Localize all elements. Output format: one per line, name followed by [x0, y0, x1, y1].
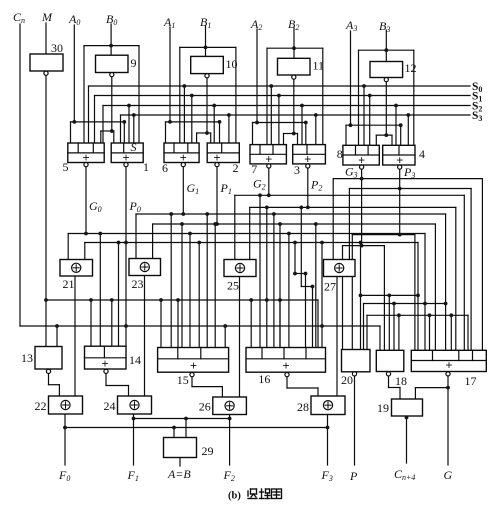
svg-text:26: 26	[199, 400, 211, 414]
bubble U10 output	[205, 74, 209, 78]
wire Mbar vertical	[45, 76, 47, 347]
net AB line a	[65, 427, 328, 429]
svg-text:24: 24	[104, 399, 116, 413]
junction Mbar-to-16a	[249, 298, 253, 302]
wire A1 input	[169, 27, 171, 122]
wire G1 to gate15	[170, 214, 172, 348]
svg-text:19: 19	[377, 401, 389, 415]
XOR gate 27	[324, 260, 356, 277]
junction redist c s2	[449, 313, 453, 317]
svg-text:14: 14	[129, 353, 141, 367]
input label Cn	[13, 10, 25, 25]
label P	[349, 469, 358, 483]
wire P3 extend	[399, 189, 401, 235]
AOI gate 4	[383, 145, 415, 167]
wire B2 input	[293, 28, 295, 58]
wire Bbar2 bridge	[284, 133, 298, 135]
AOI gate 6	[164, 143, 199, 165]
net G0 right drop	[424, 234, 426, 351]
label 20	[341, 373, 353, 387]
label S2	[472, 101, 482, 114]
svg-text:13: 13	[21, 351, 33, 365]
svg-text:16: 16	[258, 372, 270, 386]
net P1 left drop	[152, 224, 154, 260]
svg-text:A=B: A=B	[167, 467, 191, 481]
net G2 left drop	[234, 195, 236, 260]
wire P2b jog	[301, 286, 312, 288]
bubble U11 output	[292, 75, 296, 79]
label 6	[162, 161, 168, 175]
input label A0	[68, 12, 80, 27]
net G1 right drop	[445, 214, 447, 350]
junction Mbar line	[44, 298, 48, 302]
svg-text:25: 25	[227, 279, 239, 293]
label Cn+4	[394, 467, 415, 482]
svg-text:22: 22	[35, 399, 47, 413]
junction A1 bend	[218, 120, 222, 124]
label S0	[472, 81, 482, 94]
svg-text:B2: B2	[288, 17, 299, 32]
wire P0 jog	[295, 273, 306, 275]
wire A2 to gateG	[252, 123, 254, 145]
wire Bbar0 bridge	[101, 130, 114, 132]
net S3	[121, 114, 471, 116]
bubble gate 5	[84, 163, 88, 167]
junction P0-to-14	[117, 241, 121, 245]
inverter U30	[30, 54, 63, 71]
junction G1	[181, 212, 185, 216]
wire G1c to gate15	[206, 214, 208, 348]
wire Cn to 15	[224, 326, 226, 348]
wire P2	[307, 166, 309, 207]
junction F2 branch	[228, 417, 232, 421]
wire G3 loop to 20	[342, 246, 344, 350]
junction B3 tap	[384, 48, 388, 52]
svg-text:7: 7	[251, 162, 257, 176]
svg-text:G0: G0	[89, 199, 102, 214]
net G3 line	[333, 178, 482, 180]
label F0	[58, 468, 70, 483]
junction redist a to 18	[387, 294, 391, 298]
wire A2 to gateP	[305, 123, 307, 145]
wire P3 to gate17	[414, 235, 416, 351]
svg-text:1: 1	[143, 160, 149, 174]
svg-text:P2: P2	[310, 178, 322, 193]
wire B0 loop left	[83, 46, 85, 143]
wire redist b to 20	[363, 304, 365, 350]
svg-text:Cn+4: Cn+4	[394, 467, 415, 482]
junction S3 tap bit3	[406, 113, 410, 117]
wire S2 tap bit1	[213, 106, 215, 144]
svg-text:29: 29	[202, 444, 214, 458]
label G	[444, 468, 453, 482]
svg-text:G2: G2	[253, 177, 266, 192]
wire 15 out	[192, 377, 222, 397]
wire S2 tap bit2	[301, 106, 303, 145]
AOI gate 14	[85, 346, 127, 370]
svg-text:3: 3	[294, 163, 300, 177]
svg-text:Cn: Cn	[13, 10, 25, 25]
net redist b	[364, 303, 446, 305]
net G1 line	[136, 213, 446, 215]
wire XOR27 out	[336, 277, 338, 397]
wire G2 to gate16	[259, 195, 261, 347]
wire Mbar to 14a	[90, 300, 92, 347]
svg-text:+: +	[101, 357, 108, 371]
net G0 left drop	[67, 234, 69, 261]
svg-text:P3: P3	[403, 165, 415, 180]
wire S2 tap bit0	[102, 106, 104, 144]
wire Cn vertical	[19, 24, 21, 326]
svg-text:30: 30	[51, 41, 63, 55]
junction A3 bend	[399, 123, 403, 127]
AOI gate 16	[246, 348, 326, 373]
bubble gate 8	[360, 165, 364, 169]
wire A1 to gateG	[165, 122, 167, 143]
label 19	[377, 401, 389, 415]
wire P1	[216, 165, 218, 224]
junction Mbar-to-14b	[110, 298, 114, 302]
NAND gate 19	[392, 399, 423, 416]
label 29	[202, 444, 214, 458]
junction P0	[124, 241, 128, 245]
label P2	[310, 178, 322, 193]
net G3 loop	[343, 245, 385, 247]
wire 29 in b	[185, 419, 187, 438]
label 25	[227, 279, 239, 293]
wire B2 loop left	[266, 48, 268, 144]
label 30	[51, 41, 63, 55]
wire P3	[399, 167, 401, 188]
svg-text:20: 20	[341, 373, 353, 387]
XOR gate 23	[129, 259, 161, 276]
label P3	[403, 165, 415, 180]
label 3	[294, 163, 300, 177]
wire XOR21 out	[74, 276, 76, 396]
input label B2	[288, 17, 299, 32]
AND gate 18	[376, 350, 404, 371]
inverter U10	[191, 56, 224, 73]
bubble 20	[352, 372, 356, 376]
wire B0 loop top	[84, 45, 139, 47]
svg-text:6: 6	[162, 161, 168, 175]
AOI gate 2	[207, 143, 239, 165]
label 9	[131, 56, 137, 70]
net P0 left drop	[84, 243, 86, 261]
junction P2	[306, 206, 310, 210]
label P0	[129, 199, 141, 214]
wire redist a 18	[388, 295, 390, 350]
XOR gate 21	[60, 260, 93, 277]
junction S3 tap bit1	[227, 113, 231, 117]
svg-text:+: +	[282, 359, 289, 373]
net G2 right drop	[463, 195, 465, 350]
label F2	[223, 468, 235, 483]
wire S0 tap bit2	[270, 86, 272, 145]
wire G0	[85, 165, 87, 234]
wire S0 tap bit1	[183, 86, 185, 143]
wire A2 horizontal	[253, 122, 306, 124]
wire G1 to gate16	[273, 214, 275, 348]
net redist a	[361, 294, 419, 296]
wire F2 out	[229, 415, 231, 466]
junction Cn-to-16	[320, 324, 324, 328]
junction G1-to-16	[272, 212, 276, 216]
wire S3 tap bit0	[120, 115, 122, 143]
junction Mbar-to-16c	[278, 298, 282, 302]
label A=B	[167, 467, 191, 481]
wire G3 extend	[361, 179, 363, 246]
XOR gate 22	[49, 396, 83, 414]
junction P2b tap	[299, 206, 303, 210]
junction G3 loop	[360, 244, 364, 248]
wire G1	[182, 165, 184, 214]
wire 17 short b	[450, 315, 452, 350]
junction P0-to-15	[197, 241, 201, 245]
junction P1	[215, 222, 219, 226]
wire redist c 18	[398, 315, 400, 350]
bubble gate 7	[267, 164, 271, 168]
wire 17 short a	[429, 315, 431, 350]
net P1 right drop	[434, 224, 436, 350]
AOI gate 1	[111, 140, 143, 165]
wire B3 input	[385, 30, 387, 62]
junction S1 tap bit1	[190, 94, 194, 98]
junction S2 tap bit3	[394, 104, 398, 108]
wire S3 tap bit3	[407, 115, 409, 145]
svg-text:F1: F1	[127, 468, 139, 483]
svg-text:F0: F0	[58, 468, 70, 483]
input label B0	[106, 12, 117, 27]
wire G0 to gate15	[189, 234, 191, 348]
wire Cn to 14	[125, 243, 127, 347]
wire Bbar3 bridge	[376, 134, 392, 136]
label 2	[233, 161, 239, 175]
wire B1 loop left	[179, 47, 181, 143]
junction redist a left	[359, 294, 363, 298]
caption char ji	[260, 489, 271, 499]
label G0	[89, 199, 102, 214]
wire S0 tap bit0	[88, 86, 90, 143]
svg-text:G1: G1	[187, 181, 200, 196]
junction A2 line	[255, 121, 259, 125]
wire Bbar2 down	[293, 80, 295, 134]
junction Bbar1 bridge	[205, 131, 209, 135]
wire Bbar1 to gateP	[210, 133, 212, 143]
net G0 line	[68, 233, 425, 235]
svg-text:27: 27	[324, 280, 336, 294]
wire G out	[447, 376, 449, 465]
wire B0 input	[110, 24, 112, 55]
wire A0 input	[73, 25, 75, 122]
junction P3	[398, 187, 402, 191]
net P0 line	[85, 242, 418, 244]
svg-text:10: 10	[226, 57, 238, 71]
junction A0 bend	[122, 120, 126, 124]
bubble U9 output	[110, 73, 114, 77]
label 21	[63, 277, 75, 291]
wire redist b 18	[393, 304, 395, 351]
wire A0 horizontal	[71, 121, 125, 123]
junction Mbar-to-14a	[89, 298, 93, 302]
junction P0 jog a	[293, 272, 297, 276]
wire B1 input	[205, 26, 207, 56]
svg-text:12: 12	[405, 61, 417, 75]
junction S2 tap bit1	[212, 104, 216, 108]
wire P0 to gate16	[305, 274, 307, 348]
wire P0 to gate15	[198, 243, 200, 348]
svg-text:B1: B1	[200, 15, 211, 30]
wire S0 tap bit3	[363, 86, 365, 145]
label 17	[465, 374, 477, 388]
wire S2 tap bit3	[395, 106, 397, 146]
bubble gate 4	[398, 165, 402, 169]
AOI gate 5	[68, 143, 104, 165]
wire Bbar2 to gateG	[283, 134, 285, 145]
junction redist b to 18	[392, 302, 396, 306]
junction G3	[360, 177, 364, 181]
wire Bbar3 down	[385, 82, 387, 135]
svg-text:P1: P1	[220, 181, 232, 196]
svg-text:A0: A0	[68, 12, 80, 27]
net G3 left drop	[332, 179, 334, 260]
wire A0 to gateP	[123, 122, 125, 143]
junction S2 tap bit0b	[127, 104, 131, 108]
bubble 16	[285, 373, 289, 377]
XOR gate 28	[311, 396, 345, 415]
NAND gate 20	[342, 350, 371, 372]
label 10	[226, 57, 238, 71]
wire S1 tap bit2	[278, 96, 280, 145]
net redist c	[367, 314, 468, 316]
wire B1 loop top	[180, 46, 236, 48]
label F3	[321, 468, 333, 483]
junction Cn-to-15	[223, 324, 227, 328]
bubble gate 3	[306, 164, 310, 168]
net G1 left drop	[135, 214, 137, 260]
AOI gate 7	[250, 145, 286, 167]
label 4	[419, 147, 425, 161]
svg-text:9: 9	[131, 56, 137, 70]
wire 29 in a	[173, 428, 175, 438]
label G2	[253, 177, 266, 192]
junction redist a end	[416, 294, 420, 298]
junction A1 line	[168, 120, 172, 124]
junction S0 tap bit2	[269, 84, 273, 88]
junction P0 jog b	[304, 272, 308, 276]
wire AB out	[179, 458, 181, 467]
junction G0-to-16	[287, 232, 291, 236]
wire 17 short c	[467, 315, 469, 350]
AOI gate 8	[343, 145, 379, 167]
wire B2 loop right	[322, 48, 324, 144]
wire Bbar1 bridge	[197, 132, 211, 134]
svg-text:A3: A3	[345, 18, 357, 33]
net P2 left drop	[249, 207, 251, 260]
wire Bbar0 to gateG	[100, 131, 102, 143]
bubble 17	[446, 372, 450, 376]
wire G2	[268, 166, 270, 195]
AOI gate 17	[411, 350, 486, 372]
svg-text:A1: A1	[163, 15, 175, 30]
wire XOR23 out	[144, 276, 146, 397]
label 24	[104, 399, 116, 413]
wire B3 loop right	[413, 50, 415, 145]
wire redist c to 20	[366, 315, 368, 349]
net P3 sub line	[352, 234, 415, 236]
wire G0 to gate14	[99, 234, 101, 347]
wire Cn to 16	[321, 243, 323, 348]
label 18	[395, 374, 407, 388]
svg-text:5: 5	[63, 160, 69, 174]
wire 19 b feed	[415, 388, 448, 399]
wire S2 tap bit0b	[128, 106, 130, 144]
bubble U30 output	[44, 71, 48, 75]
wire P1 to gate15	[181, 224, 183, 348]
svg-text:S: S	[130, 140, 136, 154]
wire P out	[354, 376, 356, 465]
junction G0	[84, 232, 88, 236]
wire F1 out	[133, 414, 135, 465]
input label A3	[345, 18, 357, 33]
wire A3 to gateP	[400, 125, 402, 145]
caption char luo	[248, 489, 257, 499]
junction Cn-to-14	[124, 324, 128, 328]
svg-text:F3: F3	[321, 468, 333, 483]
wire B2 loop top	[267, 47, 323, 49]
label 14	[129, 353, 141, 367]
wire P2b to gate16	[312, 287, 314, 348]
svg-text:(b): (b)	[228, 491, 241, 502]
wire Cn horizontal	[20, 325, 380, 327]
junction A2 bend	[304, 121, 308, 125]
wire F3 out	[327, 415, 329, 466]
wire M input	[45, 23, 47, 54]
label 26	[199, 400, 211, 414]
wire Bbar1 to gateG	[196, 133, 198, 143]
input label A2	[250, 17, 262, 32]
wire Bbar2 to gateP	[297, 134, 299, 145]
svg-text:17: 17	[465, 374, 477, 388]
junction P1-to-15	[180, 222, 184, 226]
wire A1 horizontal	[166, 121, 220, 123]
wire P1b to gate15	[214, 224, 216, 348]
junction 19 out	[405, 416, 409, 420]
junction G2	[267, 193, 271, 197]
junction Bbar3 bridge	[384, 133, 388, 137]
label 13	[21, 351, 33, 365]
inverter U9	[96, 55, 129, 72]
net S1	[95, 95, 471, 97]
wire P2b jog down	[300, 207, 302, 286]
wire Cn to 13	[56, 326, 58, 347]
svg-text:B3: B3	[379, 19, 390, 34]
wire P1b to gate16	[315, 224, 317, 348]
svg-text:F2: F2	[223, 468, 235, 483]
XOR gate 24	[118, 396, 152, 414]
wire Mbar to 15	[160, 300, 162, 348]
bubble U12 output	[384, 78, 388, 82]
wire redist a to 20	[360, 243, 362, 350]
label 11	[313, 59, 325, 73]
XOR gate 25	[224, 260, 256, 277]
AOI gate 3	[293, 145, 326, 167]
input label M	[41, 10, 53, 24]
label S3	[472, 110, 482, 123]
svg-text:21: 21	[63, 277, 75, 291]
net P3 left drop	[348, 189, 350, 261]
wire G0 to gate16	[288, 234, 290, 348]
